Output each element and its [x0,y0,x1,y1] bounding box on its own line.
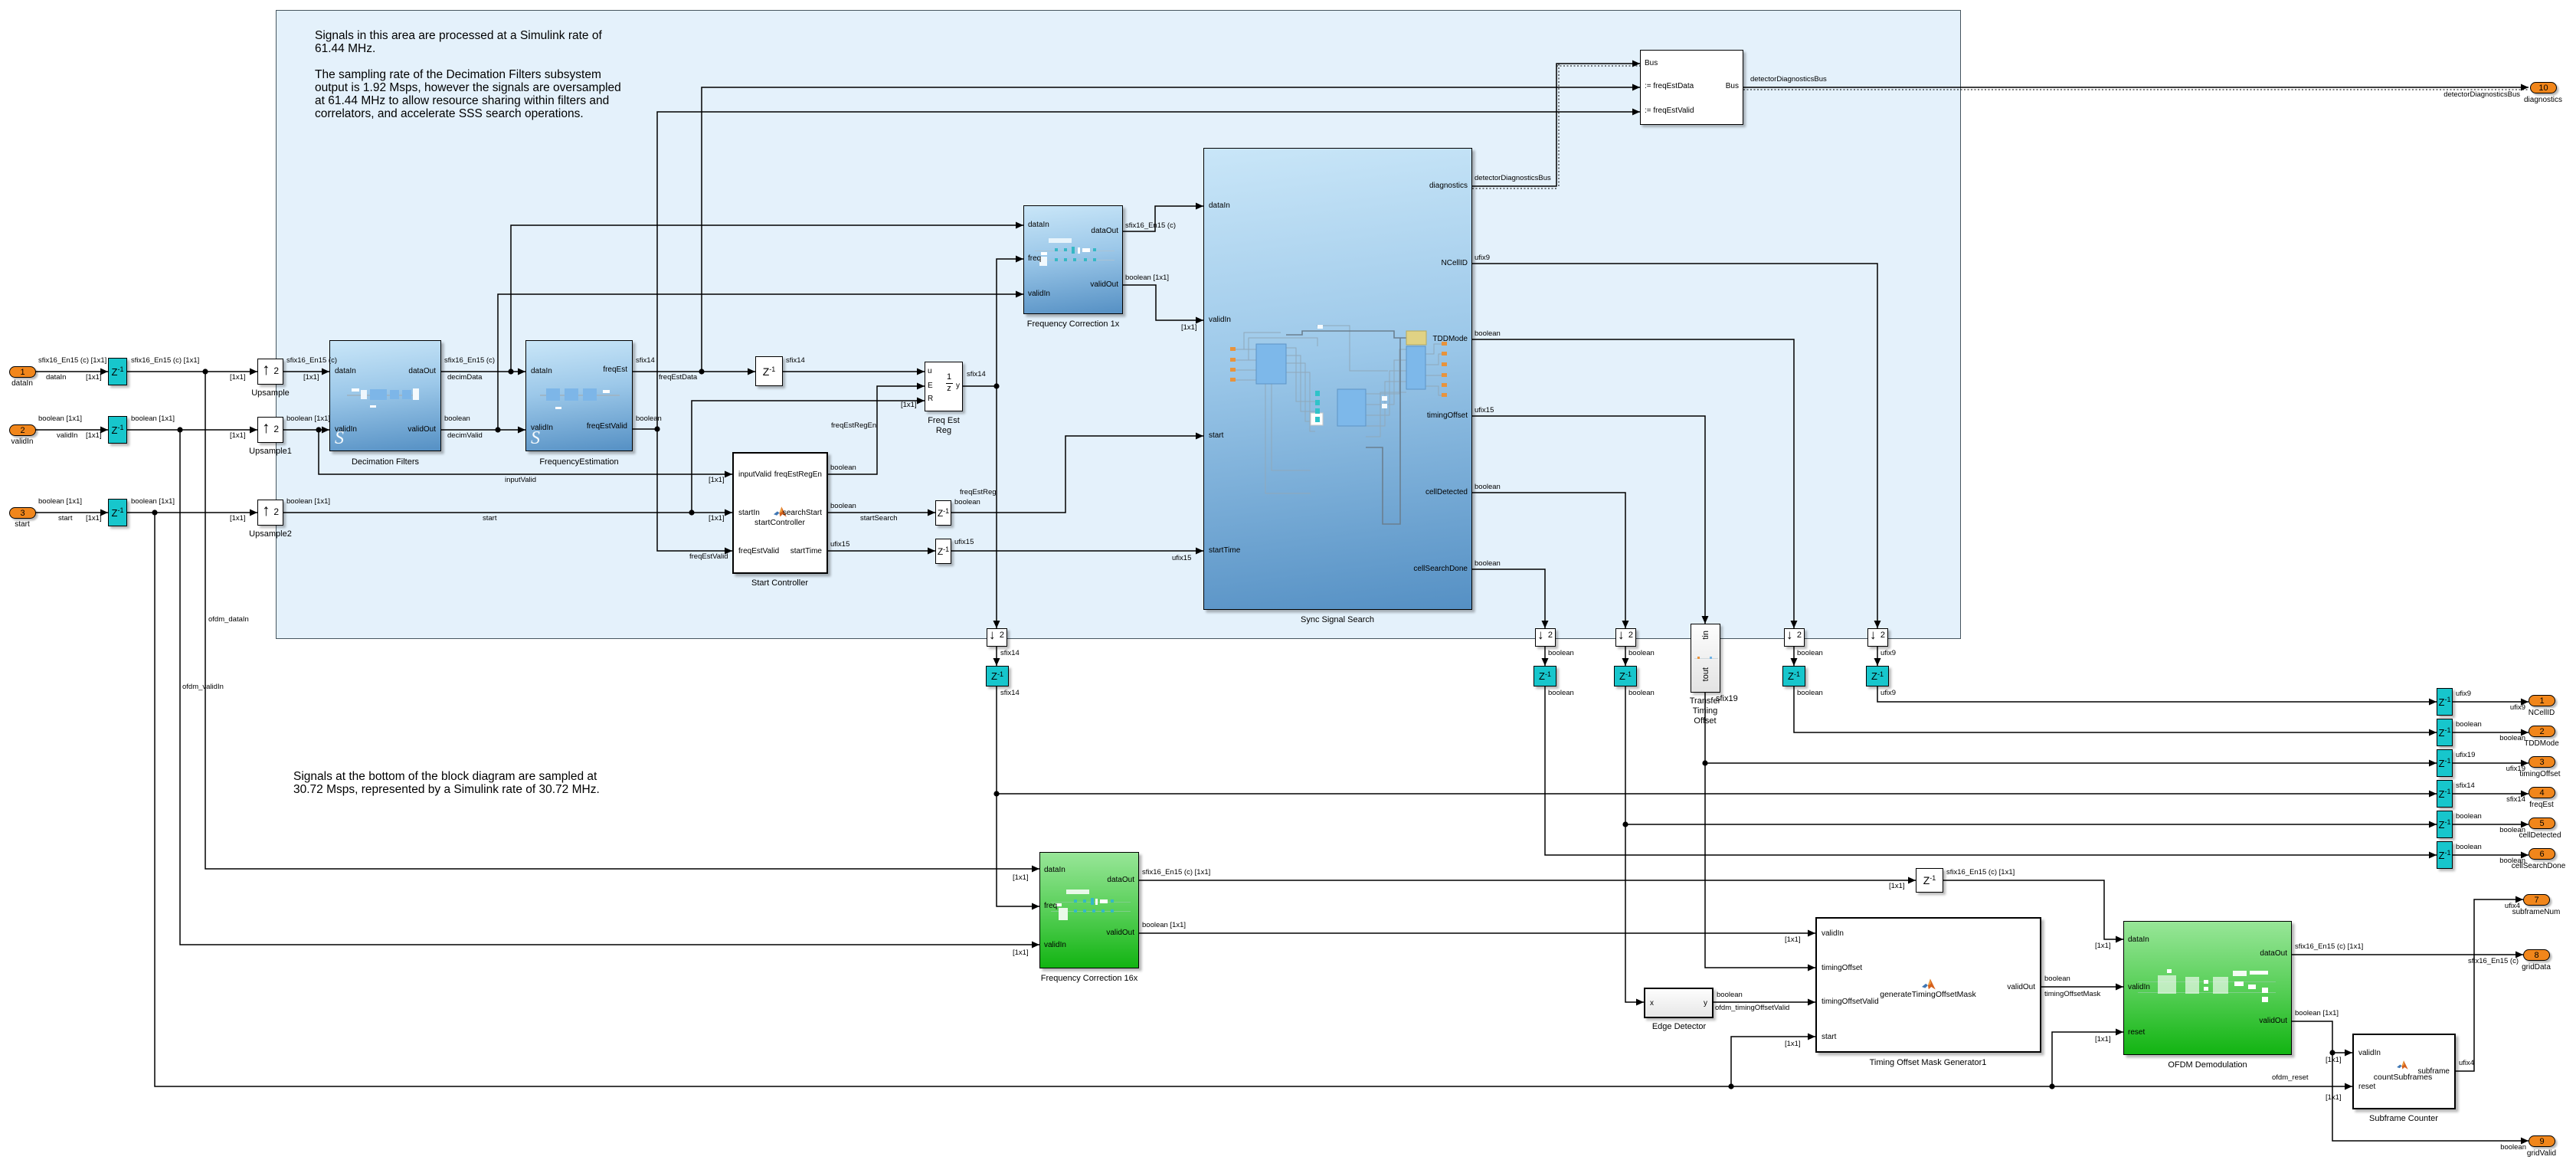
output port 3 timingOffset [2529,756,2555,768]
wire ofdm_reset to Subframe Counter reset [155,513,2352,1086]
output port 5 cellDetected [2529,817,2555,829]
wire Delay to Upsample1 (validIn) [127,429,257,431]
input port 3 start [9,507,36,519]
downsample block (freqEst) [987,628,1007,647]
wire delayed data to OFDM Demod dataIn [1943,880,2123,939]
junction reset to OFDM Demod [2049,1083,2054,1089]
light blue 61.44MHz clock region [276,10,1961,639]
wire freqEst to Frequency Correction 16x freq [997,794,1039,906]
wire dataIn port1 to Delay [35,371,108,372]
delay Z-1 (cellDetected) bottom row [1614,666,1637,686]
delay Z-1 output TDDMode [2437,719,2453,746]
wire FC1x validOut to Sync Signal Search validIn [1123,285,1203,320]
delay Z-1 output timingOffset [2437,749,2453,777]
wire freqEstData up to Bus assignment [702,87,1640,372]
wire ofdm_validIn to Frequency Correction 16x [180,430,1039,945]
output port 8 gridData [2523,949,2550,961]
junction decimValid to FC1x [495,427,500,432]
wire freqEst down [996,686,997,794]
wire TDDMode to output Delay [1794,686,2437,732]
delay Z-1 freqEstData [755,356,783,386]
annotation: Simulink rate text [315,29,621,120]
bus assignment block Bus [1640,50,1743,125]
wire decimValid to Frequency Correction 1x validIn [498,294,1023,430]
wire cellDetected to Edge Detector x [1625,824,1644,1002]
delay Z-1 (freqEst) bottom row [986,666,1009,686]
junction ofdm_dataIn tap [202,369,208,374]
junction decimData to FC1x [508,369,513,374]
wire start to Freq Est Reg R port [692,401,925,513]
matlab logo Subframe Counter [2397,1060,2408,1070]
rate transition block Transfer Timing Offset [1691,624,1720,693]
downsample block (cellSearchDone) [1535,628,1556,647]
wire freqEstValid up to Bus assignment [657,112,1640,429]
MATLAB function block Timing Offset Mask Generator1 [1815,917,2041,1053]
wire timingOffset to Transfer Timing Offset tin [1472,416,1705,624]
junction start to FreqEstReg R [689,510,694,515]
wire freqEstReg to Frequency Correction 1x freq [997,259,1023,386]
wire output Delay to port (y=956) [2453,732,2529,733]
upsample block Upsample1 [257,417,283,443]
subsystem FrequencyEstimation [525,340,633,451]
delay Z-1 (dataIn) [108,358,127,385]
delay Z-1 (cellSearchDone) bottom row [1533,666,1556,686]
wire output Delay to port (y=1116) [2453,854,2529,856]
wire timingOffsetMask to OFDM Demod validIn [2041,986,2123,988]
wire OFDM validOut to port9 gridValid [2292,1021,2529,1141]
wire output Delay to port (y=916) [2453,701,2529,703]
input port 1 dataIn [9,366,36,378]
subsystem Frequency Correction 16x [1039,852,1139,968]
wire freqEst to output Delay [997,793,2437,795]
wire start port3 to Delay [35,512,108,513]
downsample block (TDDMode) [1784,628,1805,647]
output port 4 freqEst [2529,787,2555,798]
junction timingOffset [1702,760,1707,765]
wire FC1x dataOut to Sync Signal Search dataIn [1123,206,1203,231]
wire freqEstValid out [633,428,657,430]
wire decimData to FrequencyEstimation dataIn [441,371,525,372]
matlab logo Start Controller [774,506,787,517]
wire delayed freqEstData to Freq Est Reg u [783,371,925,372]
wire start to Mask Generator [1731,1037,1815,1086]
wire OFDM dataOut to port8 gridData [2292,954,2523,955]
junction reset to Mask Generator start [1728,1083,1733,1089]
junction validOut to Subframe Counter [2329,1050,2335,1055]
wire output Delay to port (y=996) [2453,762,2529,764]
junction freqEstData to Bus [699,369,704,374]
wire cellSearchDone to output Delay [1545,686,2437,855]
wire reset to OFDM Demodulation [2052,1032,2123,1086]
wire Downsample to Delay (NCellID) [1877,647,1878,666]
wire TDDMode to Downsample [1472,339,1794,628]
delay Z-1 (TDDMode) bottom row [1782,666,1805,686]
wire decimValid to FrequencyEstimation validIn [441,429,525,431]
wire NCellID to output Delay [1877,686,2437,702]
junction freqEst [993,791,999,796]
delay Z-1 (start) [108,499,127,526]
delay Z-1 output cellDetected [2437,811,2453,838]
wire Downsample to Delay (freqEst) [996,647,997,666]
output port 7 subframeNum [2523,894,2550,906]
wire output Delay to port (y=1076) [2453,824,2529,825]
wire cellDetected down [1625,686,1626,824]
wire freqEstValid down to Start Controller [657,429,732,551]
wire output Delay to port (y=1036) [2453,793,2529,795]
subsystem Frequency Correction 1x [1023,205,1123,314]
junction ofdm_validIn tap [177,427,182,432]
output port 9 gridValid [2529,1135,2555,1147]
subsystem OFDM Demodulation [2123,921,2292,1055]
MATLAB function block Start Controller [732,452,828,574]
delay Z-1 (validIn) [108,416,127,444]
junction freqEstValid [654,426,660,431]
wire Downsample to Delay (TDDMode) [1793,647,1795,666]
junction freqEstReg [993,383,999,388]
annotation: 30.72 Msps text [293,770,600,796]
wire start to Start Controller startIn [283,512,732,513]
output port 10 diagnostics [2530,82,2557,93]
junction inputValid tap [316,427,321,432]
bus wire diagnostics to Bus assignment [1472,64,1640,186]
junction cellDetected [1622,821,1628,827]
wire FC16x validOut to Mask Generator validIn [1139,932,1815,934]
subsystem Edge Detector [1644,988,1714,1018]
wire tout down [1704,693,1706,763]
wire validIn port2 to Delay [35,429,108,431]
wire Downsample to Delay (cellDetected) [1625,647,1626,666]
wire startTime to Sync Signal Search [951,550,1203,552]
input port 2 validIn [9,424,36,436]
wire Downsample to Delay (cellSearchDone) [1544,647,1546,666]
subsystem Decimation Filters [329,340,441,451]
delay Z-1 output freqEst [2437,780,2453,808]
output port 6 cellSearchDone [2529,848,2555,860]
wire NCellID to Downsample [1472,264,1877,628]
wire cellDetected to output Delay [1625,824,2437,825]
wire freqEst to Delay freqEstData [633,371,755,372]
wire Freq Est Reg y output [963,385,997,387]
wire timingOffset to output Delay [1705,762,2437,764]
wire timingOffset to Mask Generator [1705,763,1815,968]
upsample block Upsample2 [257,500,283,526]
wire cellSearchDone to Downsample [1472,569,1545,628]
bus wire detectorDiagnosticsBus to port10 [1743,87,2529,88]
downsample block (NCellID) [1867,628,1888,647]
wire searchStart to Delay [828,512,935,513]
downsample block (cellDetected) [1615,628,1636,647]
output port 1 NCellID [2529,695,2555,706]
wire startSearch to Sync Signal Search start [951,436,1203,513]
MATLAB function block Subframe Counter [2352,1034,2456,1109]
upsample block Upsample [257,359,283,385]
wire decimData to Frequency Correction 1x dataIn [511,225,1023,372]
wire freqEstRegEn to Freq Est Reg E [828,386,925,474]
wire inputValid to Start Controller [319,430,732,474]
wire Delay to Upsample2 (start) [127,512,257,513]
delay Z-1 (NCellID) bottom row [1866,666,1889,686]
register block Freq Est Reg [925,362,963,411]
matlab logo Timing Offset Mask Generator1 [1922,978,1936,990]
delay Z-1 ofdm data [1916,868,1943,893]
wire freqEstReg down to Downsample [996,386,997,628]
wire FC16x dataOut to Delay [1139,880,1916,881]
wire Edge Detector y to timingOffsetValid [1714,1001,1815,1003]
wire validOut to Subframe Counter validIn [2332,1052,2352,1053]
wire ofdm_dataIn to Frequency Correction 16x [205,372,1039,869]
wire Delay to Upsample (dataIn) [127,371,257,372]
junction ofdm start tap [152,510,157,515]
output port 2 TDDMode [2529,726,2555,737]
subsystem Sync Signal Search [1203,148,1472,610]
delay Z-1 startSearch [935,500,951,526]
delay Z-1 output NCellID [2437,688,2453,716]
wire Upsample1 to Decimation Filters validIn [283,429,329,431]
delay Z-1 output cellSearchDone [2437,841,2453,869]
wire cellDetected to Downsample [1472,493,1625,628]
wire startTime to Delay [828,550,935,552]
wire Upsample to Decimation Filters dataIn [283,371,329,372]
wire subframe to port7 subframeNum [2456,899,2523,1071]
delay Z-1 startTime [935,539,951,564]
